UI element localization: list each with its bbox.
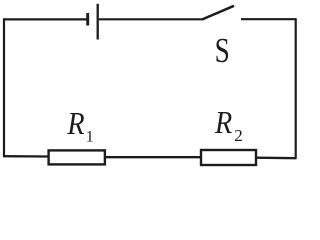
wire left vertical: [3, 19, 5, 157]
switch right contact wire: [241, 18, 296, 20]
switch blade: [202, 6, 234, 20]
svg-text:R: R: [66, 106, 84, 142]
wire between R2 and R1: [106, 156, 200, 158]
wire right vertical: [295, 18, 297, 158]
resistor R2 box: [201, 150, 256, 165]
svg-text:2: 2: [234, 126, 243, 145]
wire R1 to bottom-left: [3, 155, 48, 158]
svg-text:1: 1: [86, 129, 94, 146]
battery long plate (positive terminal): [97, 4, 99, 40]
wire battery to switch: [99, 18, 203, 20]
svg-text:S: S: [215, 31, 230, 70]
battery short plate (negative terminal): [86, 13, 89, 26]
wire bottom-right to R2: [257, 157, 297, 160]
resistor R1 box: [49, 150, 105, 164]
wire top-left to battery: [3, 18, 87, 20]
svg-text:R: R: [214, 104, 232, 140]
